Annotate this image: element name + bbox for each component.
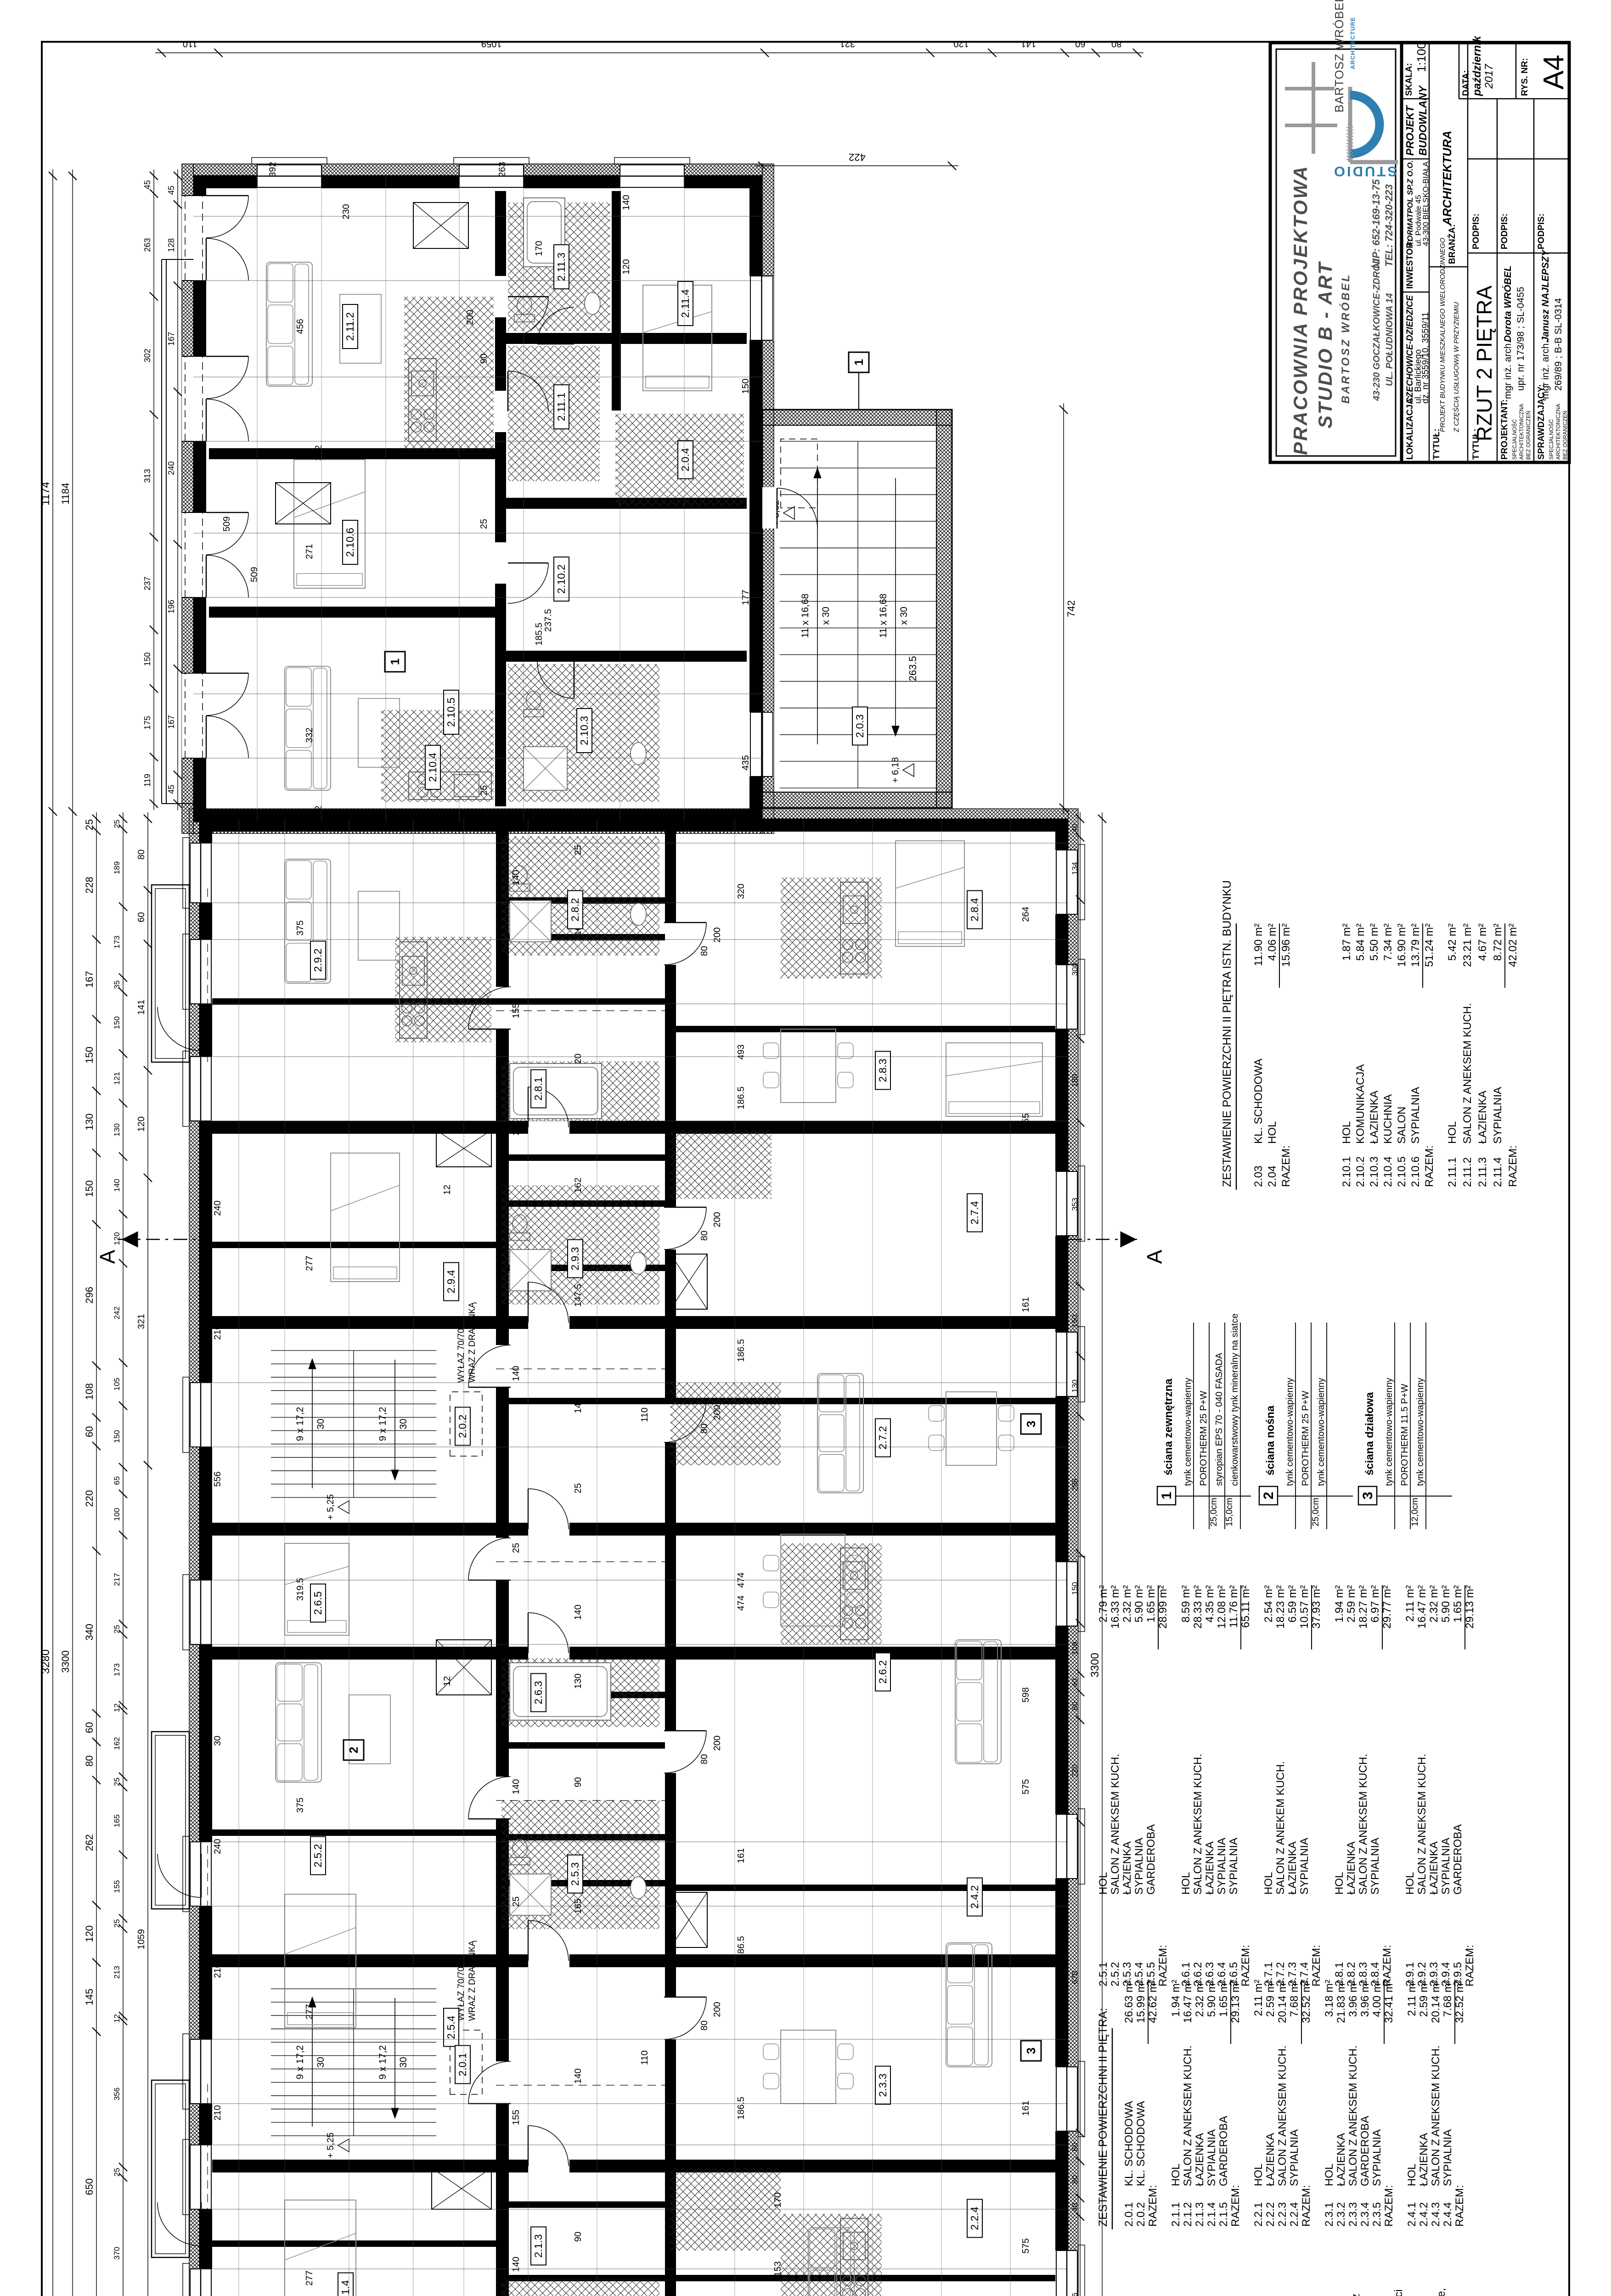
svg-text:ARCHITECTURE: ARCHITECTURE xyxy=(1349,17,1356,69)
svg-text:ARCHITEKTONICZNA: ARCHITEKTONICZNA xyxy=(1555,404,1561,460)
wardrobe xyxy=(276,483,331,524)
floor tile hatch xyxy=(501,1185,659,1305)
svg-text:120: 120 xyxy=(621,259,631,274)
svg-text:SPECJALNOŚĆ: SPECJALNOŚĆ xyxy=(1511,419,1518,460)
svg-text:2.5.2: 2.5.2 xyxy=(312,1844,324,1867)
window sill xyxy=(183,934,189,1009)
svg-text:2.3.1: 2.3.1 xyxy=(1323,2202,1335,2227)
insulation right xyxy=(199,809,1068,819)
svg-text:356: 356 xyxy=(1070,2293,1079,2296)
balcony railing xyxy=(155,889,186,1058)
svg-text:277: 277 xyxy=(304,1255,315,1271)
svg-text:186.5: 186.5 xyxy=(736,2097,746,2120)
insulation right xyxy=(193,164,762,175)
svg-text:GARDEROBA: GARDEROBA xyxy=(1145,1824,1157,1895)
top chain overall xyxy=(52,169,53,2296)
insulation top xyxy=(182,164,193,833)
svg-text:ŁAZIENKA: ŁAZIENKA xyxy=(1428,1841,1440,1895)
door xyxy=(537,307,574,344)
svg-text:TYTUŁ:: TYTUŁ: xyxy=(1432,428,1442,460)
svg-text:PODPIS:: PODPIS: xyxy=(1537,214,1546,249)
balcony slab xyxy=(152,885,189,1062)
washbasin xyxy=(631,743,646,765)
svg-text:18.27 m²: 18.27 m² xyxy=(1357,1585,1369,1629)
svg-text:509: 509 xyxy=(222,516,232,531)
svg-text:25: 25 xyxy=(113,820,121,828)
floor tile hatch xyxy=(670,1130,772,1199)
svg-text:269/89 ; B-B SL-0314: 269/89 ; B-B SL-0314 xyxy=(1553,298,1564,391)
svg-text:200: 200 xyxy=(712,1212,722,1227)
svg-text:3: 3 xyxy=(1024,2048,1038,2054)
svg-text:25,0cm: 25,0cm xyxy=(1311,1498,1321,1526)
svg-text:HOL: HOL xyxy=(1262,1872,1275,1895)
kitchen floor hatch xyxy=(781,2214,882,2296)
floor tile hatch xyxy=(501,1801,659,1929)
svg-text:140: 140 xyxy=(511,1366,521,1381)
svg-text:2.5.2: 2.5.2 xyxy=(1109,1962,1121,1986)
window sill xyxy=(454,158,529,164)
coffee table xyxy=(340,294,381,363)
svg-text:KUCHNIA: KUCHNIA xyxy=(1382,1094,1394,1144)
door opening upper spine xyxy=(495,2061,510,2104)
svg-text:32.52 m²: 32.52 m² xyxy=(1453,1980,1466,2023)
svg-text:3300: 3300 xyxy=(1089,1653,1101,1677)
svg-text:PRACOWNIA PROJEKTOWA: PRACOWNIA PROJEKTOWA xyxy=(1290,165,1311,455)
svg-text:RZUT 2 PIĘTRA: RZUT 2 PIĘTRA xyxy=(1472,286,1496,441)
party wall x=2811 xyxy=(212,1523,1055,1536)
svg-text:120: 120 xyxy=(953,39,969,49)
letterhead cell double border xyxy=(1270,43,1402,462)
svg-text:BARTOSZ WRÓBEL: BARTOSZ WRÓBEL xyxy=(1339,273,1352,404)
wall type marker 1 xyxy=(385,652,405,672)
svg-text:262: 262 xyxy=(84,1834,95,1851)
bed 2.8.4 xyxy=(946,1043,1042,1116)
svg-text:45: 45 xyxy=(167,186,176,195)
svg-text:28.33 m²: 28.33 m² xyxy=(1192,1585,1204,1629)
svg-text:1.94 m²: 1.94 m² xyxy=(1170,1980,1182,2017)
svg-text:173: 173 xyxy=(113,1663,121,1676)
svg-text:11.90 m²: 11.90 m² xyxy=(1252,923,1265,966)
table 2.3.3 xyxy=(781,2030,836,2104)
svg-text:80: 80 xyxy=(699,1424,710,1434)
svg-text:KL. SCHODOWA: KL. SCHODOWA xyxy=(1123,2101,1135,2186)
balcony door leaf a xyxy=(206,399,248,441)
partition xyxy=(665,1026,1055,1032)
svg-text:271: 271 xyxy=(304,544,315,559)
svg-text:1.87 m²: 1.87 m² xyxy=(1341,923,1353,961)
svg-text:60: 60 xyxy=(1070,1702,1079,1711)
svg-text:ZESTAWIENIE POWIERZCHNI II PIĘ: ZESTAWIENIE POWIERZCHNI II PIĘTRA ISTN. … xyxy=(1221,880,1234,1187)
svg-text:18.23 m²: 18.23 m² xyxy=(1274,1585,1287,1629)
svg-text:SALON: SALON xyxy=(1396,1107,1408,1144)
svg-text:9 x 17,2: 9 x 17,2 xyxy=(295,1407,305,1441)
svg-text:60: 60 xyxy=(136,912,146,922)
svg-text:16.47 m²: 16.47 m² xyxy=(1416,1585,1428,1629)
bottom chain fine xyxy=(1080,812,1081,2296)
svg-text:ŁAZIENKA: ŁAZIENKA xyxy=(1194,2133,1206,2186)
svg-text:2.10.6: 2.10.6 xyxy=(344,528,356,557)
svg-text:90: 90 xyxy=(573,1777,583,1787)
top chain 4 xyxy=(147,812,148,2296)
partition xyxy=(665,2275,1055,2281)
stair tower walls xyxy=(762,410,952,808)
svg-text:2.1.4: 2.1.4 xyxy=(339,2280,351,2296)
svg-text:240: 240 xyxy=(167,461,176,475)
svg-text:2017: 2017 xyxy=(1483,63,1495,89)
balcony door opening xyxy=(182,673,206,758)
svg-text:2.10.4: 2.10.4 xyxy=(1382,1156,1394,1187)
svg-text:11.76 m²: 11.76 m² xyxy=(1228,1585,1240,1628)
room label 2.8.3 xyxy=(875,1052,890,1090)
door xyxy=(468,987,511,1029)
svg-text:120: 120 xyxy=(113,1232,121,1245)
svg-text:GARDEROBA: GARDEROBA xyxy=(1359,2116,1371,2186)
svg-text:16.47 m²: 16.47 m² xyxy=(1182,1980,1194,2023)
svg-text:2.11.2: 2.11.2 xyxy=(344,312,356,341)
svg-text:23.21 m²: 23.21 m² xyxy=(1461,923,1474,967)
svg-text:150: 150 xyxy=(143,652,152,666)
svg-text:110: 110 xyxy=(640,2050,650,2065)
svg-text:ARCHITEKTONICZNA: ARCHITEKTONICZNA xyxy=(1518,404,1525,460)
svg-text:NIP: 652-169-13-75: NIP: 652-169-13-75 xyxy=(1370,179,1382,269)
wall 2.10.6/2.11.2 xyxy=(209,448,495,459)
bed 2.11.4 xyxy=(643,285,712,391)
svg-text:140: 140 xyxy=(621,195,631,210)
svg-text:2.7.2: 2.7.2 xyxy=(877,1426,889,1449)
svg-text:167: 167 xyxy=(167,332,176,346)
window sill xyxy=(614,158,690,164)
svg-text:SALON Z ANEKSEM KUCH.: SALON Z ANEKSEM KUCH. xyxy=(1357,1754,1369,1895)
coffee table xyxy=(358,891,400,960)
room label 2.0.2 xyxy=(455,1407,470,1446)
svg-text:SYPIALNIA: SYPIALNIA xyxy=(1409,1087,1422,1144)
svg-text:556: 556 xyxy=(213,1471,223,1486)
svg-text:WRAZ Z DRABINKĄ: WRAZ Z DRABINKĄ xyxy=(749,494,759,574)
svg-text:2.9.2: 2.9.2 xyxy=(312,948,324,972)
wall type marker 3 xyxy=(1021,2041,1041,2061)
balcony door leaf b xyxy=(206,356,248,399)
kitchen floor hatch xyxy=(395,937,491,1042)
svg-text:37.93 m²: 37.93 m² xyxy=(1310,1585,1323,1629)
svg-text:140: 140 xyxy=(573,1604,583,1620)
partition strip xyxy=(509,1880,665,1886)
top chain segments xyxy=(96,812,97,2296)
svg-text:2.0.1: 2.0.1 xyxy=(1123,2202,1135,2227)
svg-text:340: 340 xyxy=(84,1624,95,1641)
svg-text:2.03: 2.03 xyxy=(1252,1165,1265,1187)
svg-text:25: 25 xyxy=(113,1919,121,1928)
studio b-art logo xyxy=(1350,160,1398,164)
top chain fine xyxy=(123,812,124,2296)
window xyxy=(1055,965,1078,1029)
balcony door leaf b xyxy=(206,512,248,555)
svg-text:2.6.2: 2.6.2 xyxy=(877,1660,889,1683)
svg-text:A4: A4 xyxy=(1538,55,1570,90)
partition xyxy=(496,1742,665,1749)
svg-text:2.0.2: 2.0.2 xyxy=(456,1414,468,1438)
svg-text:2.8.3: 2.8.3 xyxy=(877,1058,889,1082)
svg-text:2.0.4: 2.0.4 xyxy=(679,448,691,471)
shower xyxy=(524,747,567,790)
bath 2.11.3 floor xyxy=(508,203,610,331)
kitchen counter xyxy=(409,359,436,441)
svg-text:230: 230 xyxy=(341,204,351,219)
svg-text:2.79 m²: 2.79 m² xyxy=(1097,1585,1110,1622)
washbasin xyxy=(631,1877,646,1899)
door xyxy=(468,1538,511,1580)
partition xyxy=(212,1242,496,1248)
extension lines existing building xyxy=(193,758,762,759)
washbasin xyxy=(631,903,646,925)
svg-text:140: 140 xyxy=(113,1179,121,1192)
svg-text:POROTHERM 25 P+W: POROTHERM 25 P+W xyxy=(1199,1391,1209,1486)
svg-text:353: 353 xyxy=(1070,1198,1079,1210)
svg-text:1.94 m²: 1.94 m² xyxy=(1333,1585,1346,1622)
door opening party wall xyxy=(528,1954,569,1968)
door opening xyxy=(494,276,507,317)
svg-text:2.11 m²: 2.11 m² xyxy=(1252,1980,1265,2016)
svg-text:210: 210 xyxy=(213,1963,223,1978)
kitchen 2.11.2 floor xyxy=(404,297,494,450)
door opening party wall xyxy=(528,2159,569,2173)
room label 2.10.4 xyxy=(425,745,440,789)
svg-text:9 x 17,2: 9 x 17,2 xyxy=(377,1407,388,1441)
svg-text:tynk cementowo-wapienny: tynk cementowo-wapienny xyxy=(1285,1378,1295,1486)
washbasin xyxy=(585,293,600,315)
window sill xyxy=(1078,1166,1085,1241)
svg-text:40: 40 xyxy=(1070,824,1079,833)
sofa 2.11.2 xyxy=(266,262,312,386)
partition xyxy=(496,1398,665,1404)
svg-text:2.32 m²: 2.32 m² xyxy=(1121,1585,1133,1622)
svg-text:HOL: HOL xyxy=(1404,1872,1416,1895)
svg-text:25: 25 xyxy=(479,785,489,795)
door xyxy=(468,2061,511,2104)
wall type marker 1 tower xyxy=(858,372,859,410)
svg-text:20.14 m²: 20.14 m² xyxy=(1430,1980,1442,2023)
window xyxy=(1055,1562,1078,1626)
svg-text:320: 320 xyxy=(736,884,746,899)
svg-text:1:100: 1:100 xyxy=(1414,42,1428,72)
svg-text:134: 134 xyxy=(1070,862,1079,875)
svg-text:2.04: 2.04 xyxy=(1266,1165,1279,1187)
window xyxy=(189,940,212,1004)
svg-text:375: 375 xyxy=(295,920,305,935)
svg-text:2.11.1: 2.11.1 xyxy=(555,393,567,421)
exterior wall bottom xyxy=(1055,819,1068,2296)
wall 2.11.4 xyxy=(612,191,621,411)
partition strip xyxy=(509,897,665,904)
door opening lower spine xyxy=(664,1997,677,2039)
party wall x=1871 xyxy=(212,1954,1055,1967)
svg-text:80: 80 xyxy=(699,2020,710,2031)
level mark triangle xyxy=(338,2139,349,2152)
svg-text:2.3.3: 2.3.3 xyxy=(877,2073,889,2097)
window xyxy=(189,2039,212,2104)
svg-text:100: 100 xyxy=(113,1508,121,1521)
door opening party wall xyxy=(528,1120,569,1134)
svg-text:WYŁAZ 70/70: WYŁAZ 70/70 xyxy=(456,1328,466,1383)
balcony door opening xyxy=(182,356,206,441)
kitchen counter xyxy=(400,942,427,1038)
balcony door opening xyxy=(182,512,206,597)
balcony door swing xyxy=(158,1854,201,1897)
room label 2.10.5 xyxy=(444,690,459,734)
svg-text:2.10.5: 2.10.5 xyxy=(445,698,457,727)
svg-text:Dorota WRÓBEL: Dorota WRÓBEL xyxy=(1502,265,1513,342)
svg-text:30: 30 xyxy=(398,1418,409,1429)
window xyxy=(1055,2251,1078,2296)
window sill xyxy=(183,1575,189,1650)
svg-text:575: 575 xyxy=(1021,2238,1031,2253)
svg-text:375: 375 xyxy=(295,1797,305,1812)
svg-text:styropian EPS 70 - 040 FASADA: styropian EPS 70 - 040 FASADA xyxy=(1214,1352,1224,1486)
staircase xyxy=(780,788,936,788)
svg-text:30: 30 xyxy=(315,2057,326,2067)
WYLAZ hatch dashed xyxy=(450,1392,482,1456)
svg-text:296: 296 xyxy=(84,1287,95,1304)
wardrobe xyxy=(436,1640,491,1695)
wardrobe xyxy=(432,2168,491,2209)
svg-text:141: 141 xyxy=(136,1000,146,1015)
coffee table xyxy=(349,1695,390,1764)
spine wall existing xyxy=(495,191,506,806)
svg-text:2.4.1: 2.4.1 xyxy=(1406,2202,1418,2227)
svg-text:PROJEKTANT:: PROJEKTANT: xyxy=(1500,399,1510,460)
window sill xyxy=(1078,959,1085,1035)
svg-text:4.35 m²: 4.35 m² xyxy=(1204,1585,1216,1622)
legend wall type 2 xyxy=(1259,1486,1278,1505)
bathtub xyxy=(510,1064,602,1119)
svg-text:tynk cementowo-wapienny: tynk cementowo-wapienny xyxy=(1183,1378,1193,1486)
room label 2.8.1 xyxy=(531,1070,546,1108)
svg-text:dz. nr 3559/10, 3559/11: dz. nr 3559/10, 3559/11 xyxy=(1421,312,1431,404)
svg-text:5.42 m²: 5.42 m² xyxy=(1446,923,1459,961)
svg-text:ARCHITEKTURA: ARCHITEKTURA xyxy=(1440,130,1454,226)
balcony door opening xyxy=(182,196,206,281)
svg-text:185.5: 185.5 xyxy=(534,623,544,646)
svg-text:155: 155 xyxy=(511,2110,521,2125)
svg-text:8.72 m²: 8.72 m² xyxy=(1492,923,1504,961)
svg-text:x 30: x 30 xyxy=(821,607,831,625)
sofa 2.9.2 xyxy=(285,859,331,983)
floor tile hatch xyxy=(501,1061,659,1121)
svg-text:65: 65 xyxy=(113,1476,121,1485)
svg-text:3.96 m²: 3.96 m² xyxy=(1347,1980,1359,2017)
window xyxy=(459,164,524,188)
svg-text:186.5: 186.5 xyxy=(736,1086,746,1109)
sofa 2.3.3 xyxy=(946,1943,992,2067)
svg-text:130: 130 xyxy=(113,1123,121,1136)
partition strip xyxy=(509,1692,665,1698)
svg-text:110: 110 xyxy=(183,39,197,49)
svg-text:RAZEM:: RAZEM: xyxy=(1300,2185,1312,2227)
svg-text:12,0cm: 12,0cm xyxy=(1410,1498,1420,1526)
svg-text:90: 90 xyxy=(573,2232,583,2242)
svg-text:HOL: HOL xyxy=(1180,1872,1192,1895)
svg-text:ŁAZIENKA: ŁAZIENKA xyxy=(1476,1091,1489,1144)
svg-text:5.90 m²: 5.90 m² xyxy=(1133,1585,1145,1622)
svg-text:186.5: 186.5 xyxy=(736,1339,746,1362)
partition xyxy=(496,2275,665,2281)
window sill xyxy=(183,838,189,908)
bottom chain overall xyxy=(1102,812,1103,2296)
svg-text:SALON Z ANEKSEM KUCH.: SALON Z ANEKSEM KUCH. xyxy=(1347,2045,1359,2186)
kitchen 2.10.4 floor xyxy=(381,710,494,802)
exterior wall right xyxy=(199,819,1068,832)
window xyxy=(749,276,774,340)
table 2.7.2 xyxy=(946,1392,997,1465)
svg-text:237.5: 237.5 xyxy=(543,609,553,632)
party wall x=2541 xyxy=(212,1647,1055,1660)
bed 2.7.4 xyxy=(896,841,964,946)
party wall x=3686 xyxy=(212,1121,1055,1134)
svg-text:1.65 m²: 1.65 m² xyxy=(1217,1980,1230,2017)
svg-text:HOL: HOL xyxy=(1097,1872,1110,1895)
svg-text:A: A xyxy=(1143,1249,1166,1264)
svg-text:456: 456 xyxy=(295,319,305,334)
bed 2.10.6 xyxy=(294,460,365,588)
svg-text:KOMUNIKACJA: KOMUNIKACJA xyxy=(1354,1064,1367,1144)
wardrobe xyxy=(413,203,468,248)
balcony slab xyxy=(152,1732,189,1909)
floor tile hatch xyxy=(670,2168,781,2251)
svg-text:7.34 m²: 7.34 m² xyxy=(1382,923,1394,961)
svg-text:2.11.4: 2.11.4 xyxy=(1492,1157,1504,1187)
svg-text:2.10.2: 2.10.2 xyxy=(555,564,567,594)
balcony door leaf a xyxy=(206,555,248,597)
window xyxy=(189,843,212,903)
door xyxy=(777,488,817,529)
svg-text:35: 35 xyxy=(113,980,121,989)
svg-text:30: 30 xyxy=(398,2057,409,2067)
svg-text:575: 575 xyxy=(1021,1779,1031,1794)
svg-text:ściana nośna: ściana nośna xyxy=(1264,1405,1277,1475)
svg-text:11 x 16,68: 11 x 16,68 xyxy=(878,594,889,638)
svg-text:ŁAZIENKA: ŁAZIENKA xyxy=(1204,1841,1216,1895)
svg-text:1: 1 xyxy=(852,359,866,366)
svg-text:7.68 m²: 7.68 m² xyxy=(1288,1980,1301,2017)
svg-text:141: 141 xyxy=(1021,39,1036,49)
svg-text:2.59 m²: 2.59 m² xyxy=(1264,1980,1277,2017)
svg-text:110: 110 xyxy=(640,1407,650,1422)
svg-text:ŁAZIENKA: ŁAZIENKA xyxy=(1335,2133,1347,2186)
wardrobe xyxy=(670,1254,707,1309)
sofa 2.2.3 xyxy=(808,2228,854,2296)
window sill xyxy=(1078,2245,1085,2296)
svg-text:319.5: 319.5 xyxy=(295,1578,305,1601)
toilet xyxy=(514,315,535,322)
svg-text:SYPIALNIA: SYPIALNIA xyxy=(1369,1838,1381,1895)
partition xyxy=(665,1885,1055,1891)
svg-text:SALON Z ANEKSEM KUCH.: SALON Z ANEKSEM KUCH. xyxy=(1182,2045,1194,2186)
svg-text:189: 189 xyxy=(113,861,121,874)
svg-text:2.2.1: 2.2.1 xyxy=(1252,2202,1265,2227)
floor tile hatch xyxy=(501,1658,659,1727)
coffee table xyxy=(358,698,400,767)
svg-text:15.99 m²: 15.99 m² xyxy=(1135,1980,1147,2023)
svg-text:60: 60 xyxy=(84,1426,95,1437)
svg-text:25: 25 xyxy=(479,519,489,529)
svg-text:80: 80 xyxy=(1070,2175,1079,2184)
partition xyxy=(496,1200,665,1207)
exterior wall left xyxy=(193,809,762,822)
svg-text:2.9.3: 2.9.3 xyxy=(569,1247,581,1270)
svg-text:186.5: 186.5 xyxy=(736,1936,746,1959)
title block outer border xyxy=(1270,43,1569,462)
svg-text:2.5.1: 2.5.1 xyxy=(1097,1962,1110,1986)
door xyxy=(528,1613,569,1653)
